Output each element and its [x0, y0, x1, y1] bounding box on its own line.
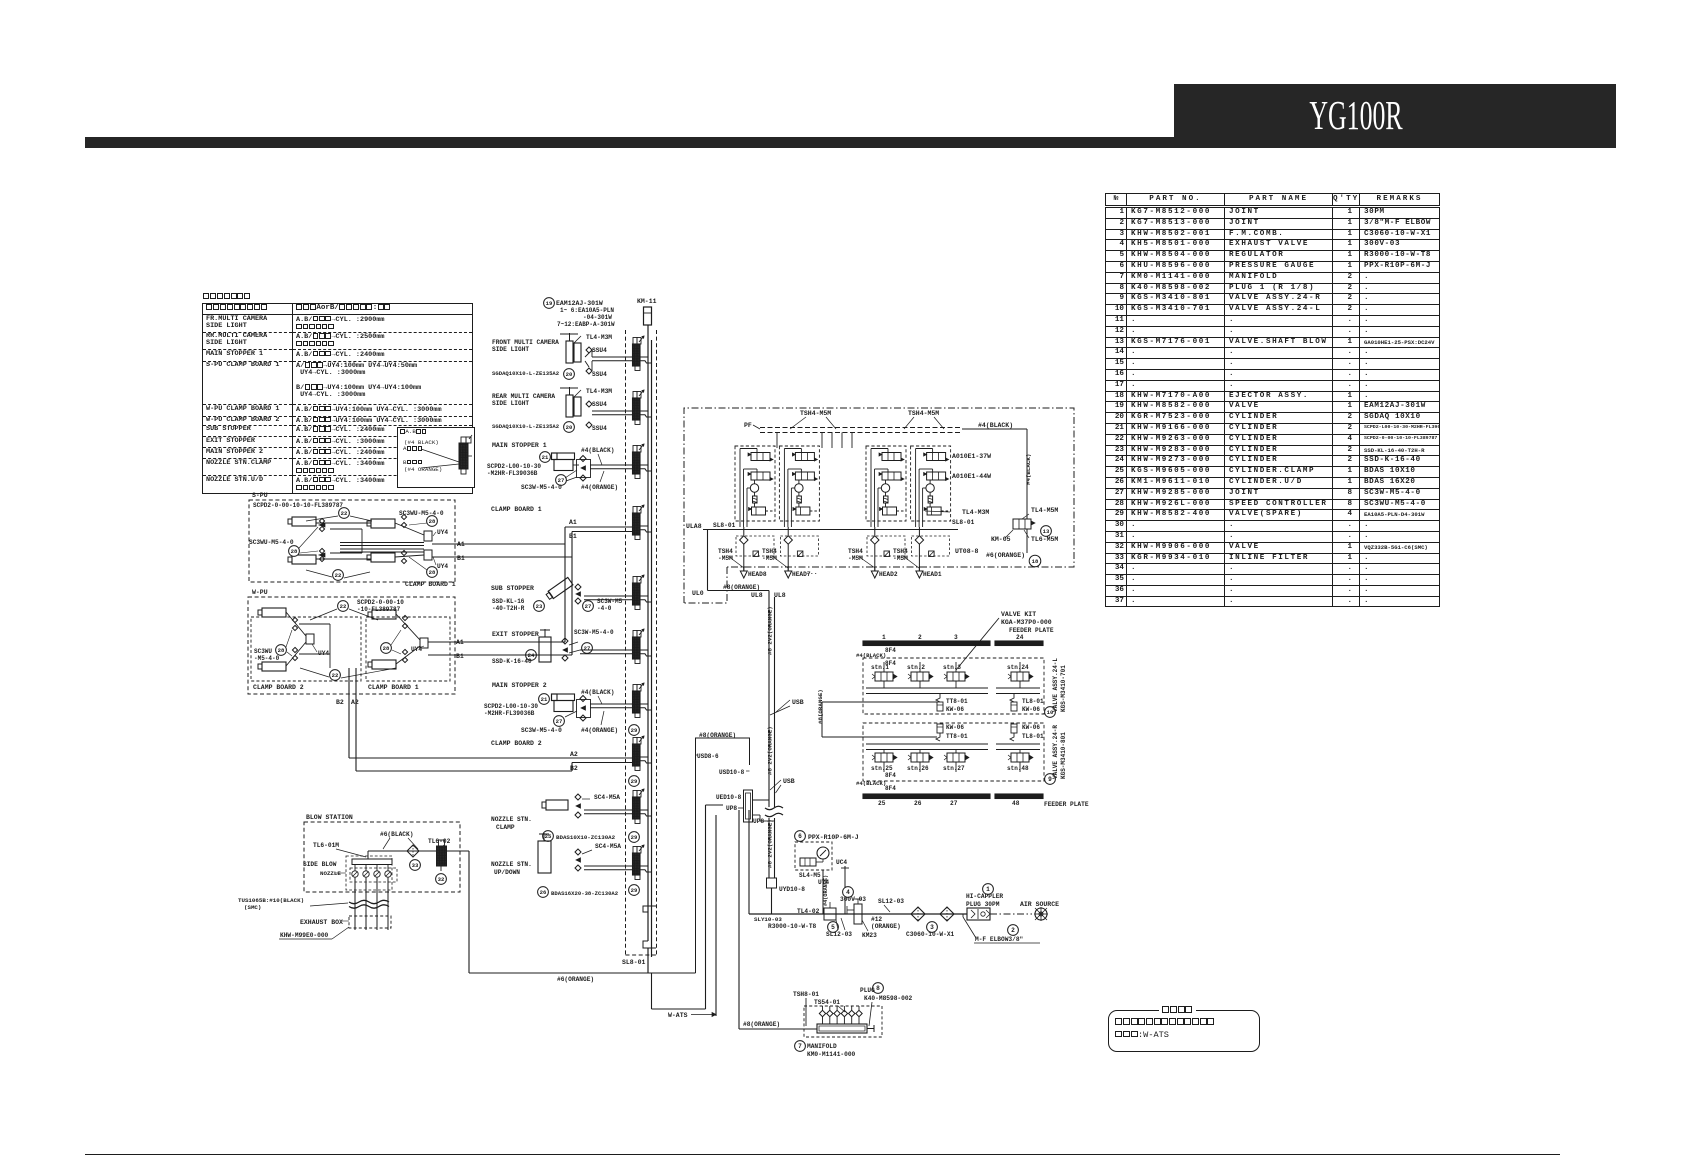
vacuum ejector circle	[881, 484, 889, 492]
svg-text:USB: USB	[783, 778, 795, 785]
wires ejector unit	[784, 448, 801, 450]
head connector dashed box	[780, 536, 818, 556]
svg-text:13: 13	[1043, 528, 1050, 535]
svg-text:CLAMP BOARD 1: CLAMP BOARD 1	[368, 684, 419, 691]
connector UED10-8	[744, 790, 753, 822]
valve (pilot)	[927, 507, 941, 515]
ejector unit enclosure	[911, 446, 951, 521]
marker 22 bottom	[333, 570, 344, 581]
svg-text:#4(BLACK): #4(BLACK)	[1025, 454, 1032, 485]
parts list table	[1105, 193, 1440, 607]
svg-text:stn.48: stn.48	[1007, 765, 1029, 772]
vacuum ejector circle	[795, 484, 803, 492]
svg-text:TT8-01: TT8-01	[946, 733, 968, 740]
wires clamp board 1	[396, 614, 420, 640]
svg-text:TSH4-M5M: TSH4-M5M	[908, 410, 939, 417]
bottom rule	[85, 1154, 1560, 1155]
speed controllers right (28)	[401, 514, 406, 519]
cylinder SSD-K-16-40 (24)	[539, 637, 551, 662]
pressure gauge (6) PPX-R10P-6M-J	[795, 831, 806, 842]
svg-text:22: 22	[332, 672, 339, 679]
svg-text:R3000-10-W-T8: R3000-10-W-T8	[768, 923, 817, 930]
svg-text:SL12-03: SL12-03	[826, 931, 852, 938]
svg-text:#4(ORANGE): #4(ORANGE)	[823, 875, 829, 906]
svg-text:KHW-M99E0-000: KHW-M99E0-000	[280, 932, 329, 939]
svg-text:#8 2V2(ORANGE): #8 2V2(ORANGE)	[767, 819, 774, 868]
svg-text:VALVE ASSY.24-L: VALVE ASSY.24-L	[1052, 658, 1059, 712]
svg-text:8F4: 8F4	[885, 785, 896, 792]
svg-text:A2: A2	[570, 751, 578, 758]
svg-text:48: 48	[1012, 800, 1020, 807]
svg-text:33: 33	[412, 862, 419, 869]
svg-text:SC3W-M5: SC3W-M5	[597, 598, 623, 605]
svg-text:27: 27	[585, 603, 592, 610]
svg-text:#8 2V2(ORANGE): #8 2V2(ORANGE)	[767, 726, 774, 775]
filter element	[753, 496, 758, 503]
speed controller SC3W pair (27)	[577, 460, 591, 478]
solenoid valve station (manifold)	[633, 392, 637, 399]
svg-text:1: 1	[882, 634, 886, 641]
svg-text:29: 29	[631, 727, 638, 734]
svg-text:#4(ORANGE): #4(ORANGE)	[581, 484, 618, 491]
valve TL6-02 (32)	[437, 846, 447, 866]
svg-text:#6(ORANGE): #6(ORANGE)	[557, 976, 594, 983]
svg-text:#8(ORANGE): #8(ORANGE)	[743, 1021, 780, 1028]
svg-text:MAIN STOPPER 2: MAIN STOPPER 2	[492, 682, 547, 689]
cylinder SGDAQ10X10 front	[566, 341, 573, 363]
hose lines A/B	[584, 865, 633, 867]
svg-text:B1: B1	[569, 533, 577, 540]
manifold bottom connector SL8-01	[643, 906, 656, 912]
exhaust triangle	[785, 571, 792, 578]
svg-text:1~ 6:EA10A5-PLN: 1~ 6:EA10A5-PLN	[560, 307, 614, 314]
inset valve symbol	[459, 443, 468, 469]
hose lines A/B	[580, 649, 633, 651]
svg-text:SSD-KL-16: SSD-KL-16	[492, 598, 525, 605]
svg-text:FEEDER PLATE: FEEDER PLATE	[1044, 801, 1089, 808]
cylinder S-PU right top	[371, 519, 395, 528]
cylinder BDAS10X10 (25)	[546, 800, 568, 810]
svg-text:19: 19	[546, 300, 553, 307]
manifold check valves TS54-01	[822, 1017, 824, 1024]
filter diamond to head	[918, 527, 920, 536]
svg-text:SCPD2-0-00-10: SCPD2-0-00-10	[357, 599, 404, 606]
svg-text:KW-06: KW-06	[1022, 724, 1040, 731]
svg-text:KW-06: KW-06	[946, 706, 964, 713]
svg-text:23: 23	[536, 603, 543, 610]
vacuum ejector circle	[750, 484, 758, 492]
svg-text:SGDAQ10X10-L-ZE135A2: SGDAQ10X10-L-ZE135A2	[492, 370, 560, 377]
svg-text:21: 21	[541, 696, 548, 703]
fitting TL8-01/KW-06 right	[1010, 694, 1014, 703]
svg-text:TL6-01M: TL6-01M	[313, 842, 339, 849]
manifold enclosure	[804, 1006, 882, 1037]
svg-text:K40-M8598-002: K40-M8598-002	[864, 995, 913, 1002]
svg-text:stn.2: stn.2	[907, 664, 925, 671]
USD8 connector box	[696, 738, 750, 973]
filter diamond to head	[874, 527, 876, 536]
valve A010E1-44W	[795, 472, 814, 480]
svg-text:SL12-03: SL12-03	[878, 898, 904, 905]
svg-text:KM-11: KM-11	[637, 298, 657, 305]
svg-text:#6(BLACK): #6(BLACK)	[380, 831, 413, 838]
svg-text:#4(BLACK): #4(BLACK)	[856, 652, 886, 659]
svg-text:BDAS16X20-38-ZC130A2: BDAS16X20-38-ZC130A2	[551, 890, 619, 897]
filter diamond to head	[787, 527, 789, 536]
svg-text:29: 29	[631, 834, 638, 841]
svg-text:AIR SOURCE: AIR SOURCE	[1020, 901, 1059, 908]
svg-text:-M2HR-FL39036B: -M2HR-FL39036B	[484, 710, 535, 717]
svg-text:-40-T2H-R: -40-T2H-R	[492, 605, 525, 612]
valve A010E1-44W	[882, 472, 901, 480]
svg-text:UL0: UL0	[692, 590, 704, 597]
svg-text:CLAMP BOARD 1: CLAMP BOARD 1	[491, 506, 542, 513]
svg-text:29: 29	[631, 778, 638, 785]
svg-text:8F4: 8F4	[885, 647, 896, 654]
fitting SSU4 (top)	[586, 401, 592, 407]
svg-text:CLAMP BOARD 2: CLAMP BOARD 2	[491, 740, 542, 747]
svg-text:NOZZLE: NOZZLE	[320, 870, 341, 877]
circle markers 29 on manifold	[629, 725, 640, 736]
wire blow station to SL8	[468, 851, 470, 973]
svg-text:W-PU: W-PU	[252, 589, 268, 596]
manifold dashed enclosure	[625, 330, 627, 955]
filter F.M.COMB C3060 (3)	[911, 907, 925, 921]
cylinder W-PU left bottom	[262, 662, 286, 671]
svg-text:A010E1-37W: A010E1-37W	[952, 453, 991, 460]
svg-text:FEEDER PLATE: FEEDER PLATE	[1009, 627, 1054, 634]
exhaust triangle	[916, 571, 923, 578]
elbow M-F (2)	[1008, 925, 1019, 936]
svg-text:BLOW STATION: BLOW STATION	[306, 814, 353, 821]
svg-text:21: 21	[542, 454, 549, 461]
wire UL8 line 2	[774, 597, 776, 807]
wires ejector unit	[871, 448, 888, 450]
design memo box	[1108, 1010, 1260, 1052]
svg-text:M-F ELBOW3/8": M-F ELBOW3/8"	[975, 936, 1023, 943]
svg-text:A010E1-44W: A010E1-44W	[952, 473, 991, 480]
svg-text:B2: B2	[336, 699, 344, 706]
svg-text:stn.24: stn.24	[1007, 664, 1029, 671]
marker 22 top	[339, 508, 350, 519]
rail 24-R	[866, 743, 988, 745]
exhaust valve 300V-03 (4)	[843, 887, 854, 898]
exhaust triangle	[871, 571, 878, 578]
svg-text:25: 25	[878, 800, 886, 807]
svg-text:-04-301W: -04-301W	[583, 314, 612, 321]
svg-text:26: 26	[540, 889, 547, 896]
manifold UY4 connectors	[424, 531, 432, 541]
svg-text:7~12:EABP-A-301W: 7~12:EABP-A-301W	[557, 321, 615, 328]
ejector unit enclosure	[866, 446, 906, 521]
svg-text:KGA-M37P0-000: KGA-M37P0-000	[1001, 619, 1052, 626]
valve A010E1-37W	[882, 453, 901, 461]
svg-text:EAM12AJ-301W: EAM12AJ-301W	[556, 300, 603, 307]
svg-text:SIDE LIGHT: SIDE LIGHT	[492, 346, 529, 353]
valve (pilot)	[796, 507, 810, 515]
svg-text:MAIN STOPPER 1: MAIN STOPPER 1	[492, 442, 547, 449]
blow line	[368, 850, 469, 852]
svg-text:18: 18	[1032, 558, 1039, 565]
top rule bar	[85, 137, 1174, 148]
svg-text:TSH4: TSH4	[762, 548, 777, 555]
svg-text:TT8-01: TT8-01	[946, 698, 968, 705]
svg-text:SUB STOPPER: SUB STOPPER	[491, 585, 534, 592]
hose break symbols	[765, 806, 783, 809]
cylinder W-PU left top	[262, 608, 286, 617]
manifold UY4 clamp board 1	[420, 638, 428, 648]
svg-text:UP/DOWN: UP/DOWN	[494, 869, 520, 876]
solenoid valve station (manifold)	[633, 685, 637, 692]
nozzles	[352, 871, 358, 877]
svg-text:2: 2	[1011, 927, 1015, 934]
svg-text:UP8: UP8	[726, 805, 737, 812]
head connector dashed box	[736, 536, 774, 556]
head connector dashed box	[867, 536, 905, 556]
svg-text:TL4-02: TL4-02	[797, 908, 820, 915]
svg-text:SIDE BLOW: SIDE BLOW	[303, 861, 337, 868]
wires ejector unit	[916, 448, 933, 450]
svg-text:C3060-10-W-X1: C3060-10-W-X1	[906, 931, 955, 938]
svg-text:SLY10-03: SLY10-03	[754, 916, 782, 923]
svg-text:MANIFOLD: MANIFOLD	[807, 1043, 837, 1050]
svg-text:HEAD1: HEAD1	[923, 571, 942, 578]
svg-text:CLAMP: CLAMP	[496, 824, 515, 831]
svg-text:UYD10-8: UYD10-8	[779, 886, 805, 893]
svg-text:SL8-01: SL8-01	[952, 519, 975, 526]
air source	[990, 913, 1032, 915]
cylinder SCPD2 main stopper 2 (21)	[539, 694, 550, 705]
svg-text:TUS1065B:#10(BLACK): TUS1065B:#10(BLACK)	[238, 897, 304, 904]
svg-text:TL4-M5M: TL4-M5M	[1031, 507, 1058, 514]
svg-text:22: 22	[335, 572, 342, 579]
svg-text:A1: A1	[457, 541, 465, 548]
PF rail stubs	[776, 433, 778, 449]
svg-text:#4(BLACK): #4(BLACK)	[978, 422, 1013, 429]
svg-text:#4(BLACK): #4(BLACK)	[581, 447, 614, 454]
svg-text:TSH4: TSH4	[848, 548, 863, 555]
filter diamond to head	[743, 527, 745, 536]
fittings SC4-M5A	[575, 849, 581, 855]
svg-text:UC4: UC4	[836, 859, 847, 866]
wires USB rails to valve assys	[822, 701, 937, 703]
svg-text:HEAD2: HEAD2	[879, 571, 898, 578]
svg-text:(ORANGE): (ORANGE)	[871, 923, 901, 930]
svg-text:UED10-8: UED10-8	[716, 794, 742, 801]
solenoid valve station (manifold)	[633, 738, 637, 745]
svg-text:SCPD2-L00-10-30: SCPD2-L00-10-30	[487, 463, 541, 470]
svg-text:28: 28	[383, 645, 390, 652]
main air line	[749, 913, 967, 915]
manifold trunk supply line	[647, 325, 649, 941]
nozzle enclosure	[346, 856, 392, 890]
exhaust triangle	[740, 571, 747, 578]
svg-text:#8(ORANGE): #8(ORANGE)	[817, 689, 824, 724]
svg-text:SSU4: SSU4	[592, 425, 607, 432]
svg-text:BDAS10X10-ZC130A2: BDAS10X10-ZC130A2	[556, 834, 616, 841]
cylinder S-PU left bottom	[292, 555, 316, 564]
svg-text:TL4-M3M: TL4-M3M	[962, 509, 989, 516]
svg-text:REAR MULTI CAMERA: REAR MULTI CAMERA	[492, 393, 555, 400]
wires S-PU internal bus	[316, 522, 371, 524]
silencer square	[797, 551, 803, 557]
cylinder BDAS16X20 (26)	[538, 841, 551, 873]
svg-text:SC3W-M5-4-0: SC3W-M5-4-0	[521, 484, 562, 491]
speed controllers left (28)	[319, 518, 324, 523]
svg-text:TSH4: TSH4	[893, 548, 908, 555]
rail 24-L	[866, 687, 988, 689]
valve A010E1-37W	[751, 453, 770, 461]
svg-text:-4-0: -4-0	[597, 605, 612, 612]
svg-text:8: 8	[876, 985, 880, 992]
svg-text:W-ATS: W-ATS	[668, 1012, 688, 1019]
svg-text:#4(BLACK): #4(BLACK)	[581, 689, 614, 696]
head connector dashed box	[912, 536, 950, 556]
svg-text:TL4-M3M: TL4-M3M	[586, 334, 612, 341]
hose lines A/B	[592, 410, 633, 412]
svg-text:PLUG 30PM: PLUG 30PM	[966, 901, 1000, 908]
solenoid valve station (manifold)	[633, 631, 637, 638]
solenoid valve station (manifold)	[633, 847, 637, 854]
manifold UY4 clamp board 2	[306, 634, 314, 644]
svg-text:stn.27: stn.27	[943, 765, 965, 772]
svg-text:28: 28	[278, 647, 285, 654]
svg-text:300V-03: 300V-03	[840, 896, 866, 903]
trunk bottom connections	[647, 948, 649, 973]
cylinder SCPD2 main stopper 1 (21)	[540, 452, 551, 463]
svg-text:UL8: UL8	[751, 592, 763, 599]
valve A010E1-44W	[927, 472, 946, 480]
connector UYD10-8	[767, 878, 777, 888]
wire manifold supply	[738, 810, 740, 1029]
hose lines A/B	[584, 809, 633, 811]
svg-text:SSD-K-16-40: SSD-K-16-40	[492, 658, 532, 665]
cylinder S-PU left top	[292, 517, 316, 526]
svg-text:VALVE ASSY.24-R: VALVE ASSY.24-R	[1052, 725, 1059, 779]
net B2/A2 wires from clamp board 2 down	[348, 668, 350, 758]
svg-text:SL8-01: SL8-01	[622, 959, 646, 966]
svg-text:3: 3	[954, 634, 958, 641]
feeder plate bottom	[863, 794, 990, 799]
svg-text:TS54-01: TS54-01	[814, 999, 840, 1006]
marker 22	[338, 601, 349, 612]
svg-text:29: 29	[631, 887, 638, 894]
svg-text:#8 2V2(ORANGE): #8 2V2(ORANGE)	[767, 606, 774, 655]
svg-text:SSU4: SSU4	[592, 401, 607, 408]
svg-text:27: 27	[584, 645, 591, 652]
speed controllers (28) clamp board 2	[292, 617, 297, 622]
svg-text:CLAMP BOARD 1: CLAMP BOARD 1	[405, 581, 456, 588]
svg-text:SCPD2-L00-10-30: SCPD2-L00-10-30	[484, 703, 538, 710]
svg-text:A1: A1	[569, 519, 577, 526]
svg-text:HEAD8: HEAD8	[748, 571, 767, 578]
hose lines A/B	[584, 595, 633, 597]
filter element	[928, 496, 933, 503]
svg-text:ULA8: ULA8	[686, 523, 702, 530]
svg-text:SC3WU: SC3WU	[254, 648, 272, 655]
svg-text:SC4-M5A: SC4-M5A	[595, 843, 621, 850]
speed controllers (28) clamp board 1	[402, 615, 407, 620]
silencer square	[929, 551, 935, 557]
svg-text:28: 28	[429, 569, 436, 576]
svg-text:UY4: UY4	[318, 650, 329, 657]
svg-text:(SMC): (SMC)	[244, 904, 261, 911]
svg-text:TL6-02: TL6-02	[428, 838, 451, 845]
svg-text:-M2HR-FL39036B: -M2HR-FL39036B	[487, 470, 538, 477]
solenoid valve station (manifold)	[633, 338, 637, 345]
net A1/B1 wires from W-PU clamp board 1	[428, 641, 565, 643]
valve (pilot)	[752, 507, 766, 515]
svg-text:TL8-01: TL8-01	[1022, 698, 1044, 705]
svg-text:SC4-M5A: SC4-M5A	[594, 794, 620, 801]
hose pair bus S-PU	[340, 542, 424, 544]
svg-text:-M5M: -M5M	[848, 555, 863, 562]
manifold trunk line 2	[651, 340, 653, 957]
svg-text:#6(ORANGE): #6(ORANGE)	[986, 552, 1025, 559]
svg-text:SIDE LIGHT: SIDE LIGHT	[492, 400, 529, 407]
silencer square	[884, 551, 890, 557]
svg-text:USB: USB	[792, 699, 804, 706]
svg-text:27: 27	[558, 477, 565, 484]
svg-text:#4(BLACK): #4(BLACK)	[856, 780, 886, 787]
svg-text:EXHAUST BOX: EXHAUST BOX	[300, 919, 343, 926]
svg-text:#12: #12	[871, 916, 882, 923]
svg-text:TSH4-M5M: TSH4-M5M	[800, 410, 831, 417]
net B1 wire from S-PU	[432, 556, 572, 558]
net A1 wire from S-PU	[432, 543, 565, 545]
svg-text:TL6-M5M: TL6-M5M	[1031, 536, 1058, 543]
fitting SSU4 (bottom)	[586, 368, 592, 374]
svg-text:7: 7	[798, 1043, 802, 1050]
svg-text:2: 2	[918, 634, 922, 641]
svg-text:B1: B1	[457, 555, 465, 562]
valve A010E1-44W	[751, 472, 770, 480]
wires clamp board 2	[286, 612, 306, 636]
fitting SSU4 (bottom)	[586, 422, 592, 428]
wire valve13 down to UT08-8	[1026, 529, 1028, 553]
svg-text:28: 28	[429, 518, 436, 525]
filter element	[884, 496, 889, 503]
stn valves 24-R	[875, 753, 893, 762]
hose lines A/B	[592, 356, 633, 358]
svg-text:28: 28	[291, 548, 298, 555]
svg-text:SL4-M5: SL4-M5	[799, 872, 821, 879]
cylinder SSD-KL-16-40 (23) diagonal	[545, 577, 573, 600]
hi-cappler plug (1)	[983, 884, 994, 895]
svg-text:SL8-01: SL8-01	[713, 522, 736, 529]
svg-text:stn.26: stn.26	[907, 765, 929, 772]
svg-text:PPX-R10P-6M-J: PPX-R10P-6M-J	[808, 834, 859, 841]
cylinder W-PU right top	[372, 610, 396, 619]
svg-text:...: ...	[806, 569, 818, 576]
svg-text:FRONT MULTI CAMERA: FRONT MULTI CAMERA	[492, 339, 559, 346]
svg-text:KGS-M3410-801: KGS-M3410-801	[1060, 732, 1067, 779]
svg-text:SGDAQ10X10-L-ZE135A2: SGDAQ10X10-L-ZE135A2	[492, 423, 560, 430]
valve 13 KGS-M7176-001	[1013, 519, 1031, 529]
svg-text:24: 24	[1016, 634, 1024, 641]
valve assy 24-L enclosure (10)	[863, 658, 1044, 714]
solenoid valve station (manifold)	[633, 446, 637, 453]
svg-text:CLAMP BOARD 2: CLAMP BOARD 2	[253, 684, 304, 691]
svg-text:26: 26	[914, 800, 922, 807]
svg-text:KM-05: KM-05	[991, 536, 1011, 543]
svg-text:B1: B1	[456, 653, 464, 660]
cylinder S-PU right bottom	[371, 553, 395, 562]
svg-text:EXIT STOPPER: EXIT STOPPER	[492, 631, 539, 638]
solenoid valve station (manifold)	[633, 577, 637, 584]
svg-text:KM0-M1141-000: KM0-M1141-000	[807, 1051, 856, 1058]
manifold bar KM0-M1141-000	[817, 1024, 867, 1033]
